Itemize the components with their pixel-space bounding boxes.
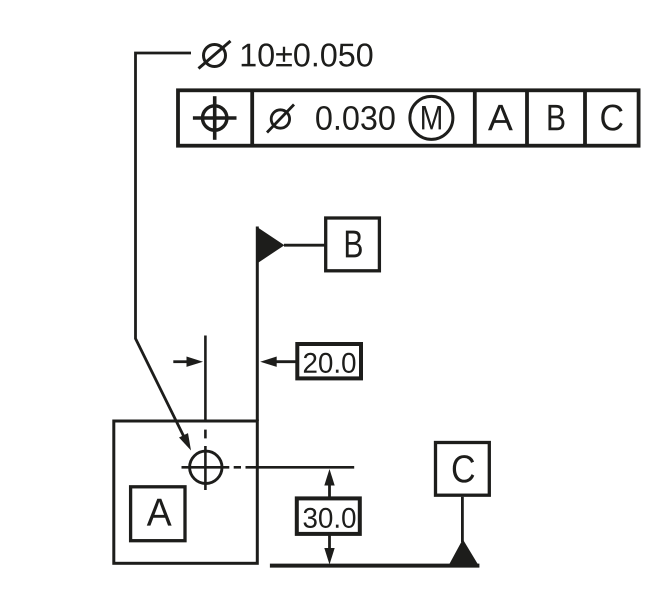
part outline <box>114 421 257 563</box>
material condition modifier M <box>410 96 453 139</box>
datum reference letter B in frame <box>548 105 564 130</box>
datum C filled triangle <box>448 539 480 567</box>
dimension 30.0 down arrow <box>328 534 331 549</box>
value label 10±0.050 <box>242 43 373 66</box>
feature control frame cell dividers <box>252 90 585 145</box>
position symbol <box>193 96 237 140</box>
datum C surface line <box>270 564 480 568</box>
datum A box <box>131 487 185 541</box>
vertical centerline of hole <box>204 336 207 491</box>
datum C box <box>436 443 490 496</box>
dimension box 30.0 <box>297 498 360 534</box>
diameter symbol in tolerance cell <box>267 105 294 133</box>
wire from datum B triangle to B box <box>284 244 326 247</box>
dimension 20.0 arrow pointing left at part edge <box>275 360 297 363</box>
wire: part right edge extension up to datum B <box>256 227 259 422</box>
diameter symbol of callout <box>199 41 231 69</box>
horizontal centerline of hole <box>182 466 355 469</box>
datum reference letter C in frame <box>601 104 622 130</box>
dimension 30.0 up arrow <box>328 484 331 498</box>
datum reference letter A in frame <box>488 105 513 130</box>
dimension box 20.0 <box>297 344 361 378</box>
wire leader from diameter callout to hole <box>136 53 192 445</box>
datum B box <box>326 218 380 271</box>
datum B filled triangle <box>256 227 284 265</box>
tolerance value 0.030 <box>316 106 394 130</box>
wire stem from C box to triangle <box>461 497 464 542</box>
dimension 20.0 small arrow pointing right at centerline <box>173 360 188 363</box>
feature control frame border <box>178 90 639 145</box>
leader arrowhead at hole <box>179 433 191 450</box>
hole circle <box>190 451 222 483</box>
